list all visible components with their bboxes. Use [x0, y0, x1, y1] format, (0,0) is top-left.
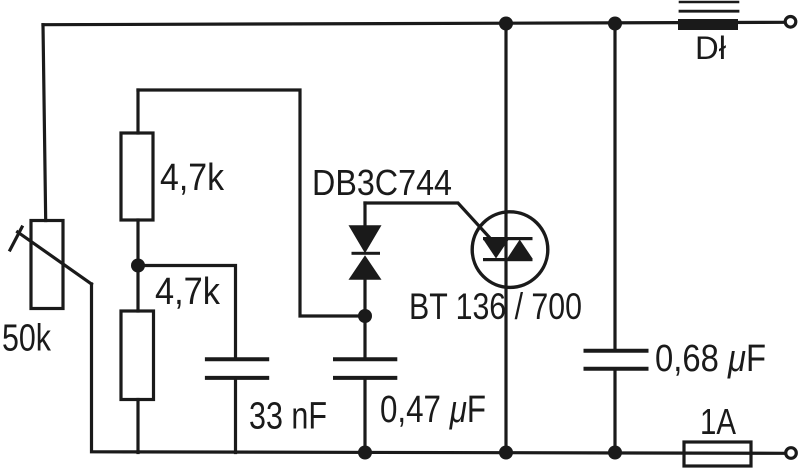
wire bottom rail: [92, 284, 785, 453]
junction dot bottom rail / C2: [358, 446, 372, 460]
junction dot R1 R2 node A: [131, 259, 145, 273]
junction dot top rail / triac: [499, 17, 513, 31]
terminal bottom right: [786, 448, 797, 459]
resistor R2 body: [121, 311, 154, 400]
inductor L1 winding bar: [678, 19, 738, 30]
wire C3 bottom lead: [613, 370, 616, 453]
junction dot top rail / C3: [608, 17, 622, 31]
inductor L1 core line lower: [680, 10, 738, 13]
svg-text:0,47 μF: 0,47 μF: [380, 389, 486, 431]
diac D1 upper triangle: [349, 225, 382, 253]
wire C3 top lead: [613, 23, 616, 349]
svg-text:4,7k: 4,7k: [155, 271, 221, 313]
potentiometer P1 body: [31, 221, 63, 309]
junction dot diac bottom node: [358, 309, 372, 323]
diac D1 lower triangle: [349, 255, 382, 279]
junction dot bottom rail / C3: [608, 446, 622, 460]
wire from node A to capacitor C1: [138, 266, 236, 358]
wire triac vertical through: [504, 23, 507, 453]
capacitor C1 33nF bottom plate: [205, 376, 269, 380]
wire left vertical to potentiometer: [43, 25, 46, 221]
triac U1 right triangle: [507, 240, 532, 259]
terminal top right: [785, 17, 796, 28]
triac U1 lower bar: [483, 258, 533, 261]
wire from R1 top to gate network: [138, 90, 365, 316]
svg-text:BT 136 / 700: BT 136 / 700: [409, 286, 582, 327]
svg-text:Dł: Dł: [695, 30, 726, 66]
capacitor C1 33nF top plate: [205, 357, 269, 361]
junction dot bottom rail / triac: [499, 446, 513, 460]
triac U1 circle: [472, 212, 548, 288]
diac D1 center bar: [352, 252, 381, 255]
svg-text:DB3C744: DB3C744: [312, 162, 452, 203]
resistor R1 body: [121, 133, 153, 220]
potentiometer P1 wiper arrow: [18, 232, 92, 284]
wire R1 bottom lead: [136, 220, 139, 266]
wire diac bottom lead: [363, 280, 366, 316]
wire R2 bottom lead: [136, 400, 139, 453]
wire C2 top lead: [363, 316, 366, 358]
capacitor C2 0,47uF top plate: [333, 357, 397, 361]
capacitor C3 0,68uF top plate: [584, 349, 649, 353]
inductor L1 core line upper: [680, 1, 738, 4]
svg-text:0,68 μF: 0,68 μF: [655, 338, 766, 380]
svg-text:50k: 50k: [2, 318, 52, 360]
triac U1 left triangle: [483, 240, 508, 259]
potentiometer P1 wiper tail tick: [10, 227, 22, 250]
wire C2 bottom lead: [363, 380, 366, 453]
svg-text:33 nF: 33 nF: [249, 396, 327, 438]
wire top rail: [43, 22, 783, 24]
triac U1 upper bar: [483, 237, 533, 240]
wire diac to triac gate: [365, 203, 495, 244]
wire C1 bottom lead: [234, 380, 237, 453]
capacitor C3 0,68uF bottom plate: [584, 367, 649, 371]
svg-text:4,7k: 4,7k: [160, 157, 225, 199]
capacitor C2 0,47uF bottom plate: [333, 376, 397, 380]
wire R1 top lead: [136, 90, 139, 133]
svg-text:1A: 1A: [700, 401, 736, 442]
wire diac top lead: [363, 203, 366, 226]
fuse F1 body: [684, 442, 751, 466]
wire R2 top lead: [136, 266, 139, 312]
